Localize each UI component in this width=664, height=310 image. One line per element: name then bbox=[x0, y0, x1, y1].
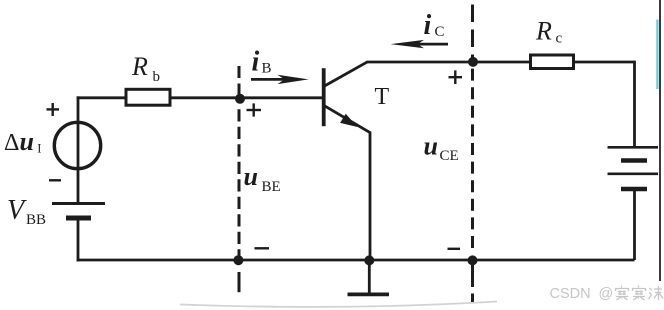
wire: emitter vertical bbox=[369, 132, 372, 261]
svg-text:R: R bbox=[131, 52, 148, 81]
plus sign at base node bbox=[247, 103, 262, 116]
wire: right vertical lower bbox=[633, 189, 636, 260]
wire: right dashed line tail below bottom wire bbox=[471, 262, 474, 287]
minus sign above bottom node left bbox=[255, 247, 270, 249]
wire: left dashed measurement line u_BE (lower) bbox=[238, 106, 241, 259]
watermark CSDN bbox=[550, 286, 664, 302]
battery right short plate 1 bbox=[621, 158, 647, 163]
wire: right dashed measurement line u_CE (lower) bbox=[471, 62, 474, 254]
svg-text:I: I bbox=[37, 142, 41, 156]
resistor Rc bbox=[531, 55, 574, 69]
faint curve bottom (next figure) bbox=[180, 302, 497, 307]
minus sign at bottom right node bbox=[448, 248, 461, 250]
svg-text:b: b bbox=[153, 69, 161, 85]
svg-text:Δ: Δ bbox=[4, 130, 19, 156]
wire: top-left horizontal (source to base) bbox=[77, 96, 322, 99]
svg-text:i: i bbox=[252, 47, 260, 78]
node: base bbox=[235, 94, 245, 104]
svg-text:B: B bbox=[262, 61, 272, 77]
source circle Δu1 bbox=[54, 122, 100, 168]
svg-text:C: C bbox=[435, 24, 445, 40]
svg-text:u: u bbox=[244, 162, 258, 191]
arrow iB bbox=[251, 75, 309, 84]
svg-text:R: R bbox=[535, 16, 552, 45]
svg-text:u: u bbox=[424, 132, 438, 161]
plus sign at source top bbox=[47, 103, 60, 116]
transistor T emitter diagonal with arrow bbox=[325, 106, 371, 133]
minus sign at source bottom bbox=[49, 179, 61, 181]
battery right long plate 1 bbox=[608, 146, 659, 149]
svg-text:V: V bbox=[7, 195, 27, 226]
node: bottom right bbox=[468, 255, 478, 265]
resistor Rb bbox=[126, 89, 170, 105]
wire: right vertical upper bbox=[633, 61, 636, 148]
wire: left vertical through source bbox=[77, 96, 80, 203]
transistor T collector diagonal bbox=[325, 62, 368, 86]
battery right short plate 2 bbox=[621, 187, 647, 192]
svg-text:c: c bbox=[556, 30, 563, 46]
svg-text:T: T bbox=[375, 84, 390, 110]
page border line right edge bbox=[659, 0, 661, 281]
transistor T bar bbox=[322, 68, 326, 126]
ground bar bbox=[348, 292, 390, 296]
svg-text:i: i bbox=[424, 10, 432, 41]
battery right long plate 2 bbox=[608, 173, 659, 176]
svg-text:BE: BE bbox=[262, 179, 281, 195]
wire: left vertical below battery bbox=[77, 218, 80, 261]
svg-text:u: u bbox=[20, 127, 34, 156]
battery VBB short plate bbox=[66, 216, 91, 221]
svg-text:CE: CE bbox=[440, 148, 459, 164]
wire: top-right horizontal (collector to battery) bbox=[367, 61, 635, 64]
arrow iC bbox=[391, 40, 449, 48]
wire: left dashed line tail below bottom wire bbox=[238, 272, 241, 292]
plus sign at collector node bbox=[449, 70, 463, 84]
svg-text:BB: BB bbox=[26, 212, 46, 228]
node: emitter bottom bbox=[364, 255, 374, 265]
node: collector top bbox=[468, 57, 478, 67]
svg-text:@: @ bbox=[599, 286, 614, 302]
wire: right dashed measurement line u_CE (upper) bbox=[471, 5, 474, 63]
battery VBB long plate bbox=[52, 202, 105, 205]
ground stem bbox=[368, 260, 371, 295]
svg-text:CSDN: CSDN bbox=[550, 286, 591, 302]
wire: bottom horizontal bbox=[77, 259, 635, 262]
node: bottom left bbox=[233, 255, 243, 265]
wire: left dashed measurement line u_BE (upper) bbox=[238, 66, 241, 98]
cyan scrollbar strip bbox=[656, 20, 658, 90]
